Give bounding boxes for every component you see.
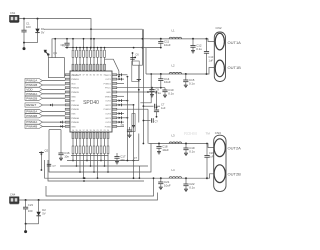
junction (160, 38, 162, 40)
pin bottom 3 (79, 133, 81, 139)
svg-text:C6: C6 (135, 52, 139, 56)
zener D2 (38, 200, 40, 212)
capacitor C9 to ground (151, 88, 153, 90)
wire Q2 stem (40, 160, 42, 170)
wire right pin 8 (117, 104, 134, 106)
resistor R8 (top network) (97, 48, 99, 51)
resistor R12 (bottom network) (72, 139, 74, 146)
inductor L2 (169, 72, 181, 74)
junction on rail (23, 42, 25, 44)
wire lower rail 1 (48, 160, 144, 181)
pin right 6 (112, 95, 117, 97)
capacitor C10 to ground (164, 88, 166, 90)
resistor R14 (bottom network) (79, 139, 81, 146)
resistor R21 (bottom network) (104, 139, 106, 146)
junction (83, 180, 85, 182)
svg-text:100: 100 (28, 209, 33, 213)
net flag RESET (25, 103, 43, 107)
pin right 7 (112, 100, 117, 102)
wire loop upper-left of IC (48, 58, 64, 78)
diode arrow channel (138, 80, 140, 82)
wire OUT2A row (149, 144, 214, 148)
svg-text:GND: GND (71, 126, 76, 128)
pin bottom 5 (86, 133, 88, 139)
wire resistor top rail (65, 47, 161, 49)
capacitor C7 series (143, 105, 153, 107)
junction (138, 89, 140, 91)
pin left 10 (65, 113, 70, 115)
pin top 8 (97, 64, 99, 70)
net flag VDD (25, 87, 43, 91)
svg-text:OUT2B: OUT2B (228, 172, 242, 177)
pin right 3 (112, 82, 117, 84)
junction (185, 177, 187, 179)
net flag PWM1A (25, 79, 43, 83)
svg-text:RESET: RESET (26, 103, 36, 107)
wire resistor 14 drop (79, 154, 81, 172)
pin left 7 (65, 100, 70, 102)
resistor R22 (bottom network) (107, 139, 109, 146)
svg-text:14: 14 (72, 130, 74, 132)
junction (84, 177, 86, 179)
diode arrow pin10 (119, 112, 121, 114)
svg-text:L2: L2 (172, 64, 176, 68)
pin right 2 (112, 78, 117, 80)
capacitor C2 between rails (66, 39, 68, 43)
junction (127, 76, 129, 78)
wire VDD rail to resistor header (90, 29, 92, 47)
transistor Q2 (40, 152, 42, 154)
wire CN4 bus (19, 193, 158, 201)
wire right pin 9 (OUT row) (117, 108, 148, 110)
svg-text:0.1u: 0.1u (189, 185, 195, 189)
junction (160, 177, 162, 179)
svg-text:OUT1B: OUT1B (228, 65, 242, 70)
svg-text:1uF: 1uF (209, 154, 214, 158)
wire resistor 12 drop (72, 154, 74, 161)
svg-text:PWM2A: PWM2A (26, 92, 37, 96)
svg-text:PWM2B: PWM2B (71, 92, 79, 94)
svg-text:L3: L3 (172, 134, 176, 138)
pin left 12 (65, 121, 70, 123)
svg-text:1uF: 1uF (209, 58, 214, 62)
pin bottom 4 (83, 133, 85, 139)
svg-text:PWM3B: PWM3B (71, 109, 79, 111)
svg-text:16: 16 (79, 130, 81, 132)
svg-text:OUT3: OUT3 (105, 114, 111, 116)
inductor L4 (169, 177, 181, 179)
diode arrow pin11 (119, 117, 121, 119)
resistor R11 (channel) (132, 114, 135, 132)
junction (206, 143, 208, 145)
inductor L1 (169, 37, 181, 39)
resistor R7 (top network) (93, 48, 95, 51)
svg-text:PWM4B: PWM4B (26, 125, 37, 129)
svg-text:0.1u: 0.1u (189, 81, 195, 85)
junction (192, 38, 194, 40)
svg-text:PGND: PGND (105, 126, 112, 128)
junction (185, 73, 187, 75)
zener D1 (37, 19, 39, 29)
svg-text:5V: 5V (41, 30, 45, 34)
transistor Q1 (44, 50, 46, 52)
resistor R16 (bottom network) (86, 139, 88, 146)
pin top 5 (86, 64, 88, 70)
svg-text:10uF: 10uF (162, 148, 169, 152)
svg-text:PWM3A: PWM3A (26, 110, 37, 114)
svg-text:PWM2B: PWM2B (26, 96, 37, 100)
wire right pin 11 (117, 117, 128, 119)
polarity mark row10 (60, 125, 62, 127)
svg-text:15: 15 (75, 130, 77, 132)
junction (118, 76, 120, 78)
net flag PWM1B (25, 83, 43, 87)
junction (158, 143, 160, 145)
svg-text:BST1: BST1 (106, 75, 112, 77)
junction node D (38, 199, 40, 201)
wire right pin 3 (117, 82, 124, 84)
svg-text:C23: C23 (28, 203, 34, 207)
wire bridge lower-left (49, 129, 61, 131)
wire rail to OUT1B (145, 48, 147, 74)
wire VDD bus (44, 28, 142, 30)
capacitor C8 (channel) (156, 92, 158, 108)
svg-text:100: 100 (26, 25, 31, 29)
resistor R4 (top network) (83, 48, 85, 51)
wire resistor 19 drop (97, 154, 99, 179)
svg-text:R1-10: R1-10 (62, 44, 70, 48)
svg-text:Q1: Q1 (53, 51, 57, 55)
wire channel v1 (126, 77, 128, 161)
svg-text:VREG: VREG (105, 96, 111, 98)
diode arrow pin8 (119, 104, 121, 106)
pin top 7 (93, 64, 95, 70)
pin right 5 (112, 91, 117, 93)
pin left 4 (65, 87, 70, 89)
junction (160, 73, 162, 75)
wire right pin 1 (117, 74, 128, 76)
wire resistor 18 drop (93, 154, 95, 172)
wire resistor 22 drop (107, 154, 109, 172)
pin right 12 (112, 121, 117, 123)
svg-text:CN3: CN3 (215, 131, 221, 135)
resistor R18 (bottom network) (93, 139, 95, 146)
svg-text:CN1: CN1 (10, 11, 16, 15)
junction node B (37, 18, 39, 20)
net flag PWM4B (25, 124, 43, 128)
wire OUT1B row (146, 68, 214, 75)
net flag PWM3B (25, 114, 43, 118)
wire bottom rail 2 (26, 223, 39, 225)
wire channel v4 (boot) (142, 29, 144, 143)
svg-text:PWM2A: PWM2A (71, 87, 79, 90)
svg-text:38: 38 (79, 75, 81, 77)
wire right pin 10 (117, 113, 124, 115)
capacitor C19 (185, 144, 187, 149)
diode arrow pin12 (119, 121, 121, 123)
svg-text:ROHM: ROHM (184, 131, 197, 136)
wire right pin 13 (117, 125, 124, 127)
wire rail stub up 2 (93, 39, 95, 48)
wire drop to Q1 loop (54, 39, 56, 58)
wire PVCC rail upper (52, 39, 208, 58)
pin bottom 9 (100, 133, 102, 139)
capacitor C22 (185, 178, 187, 184)
svg-text:PWM1B: PWM1B (26, 83, 37, 87)
svg-text:35: 35 (89, 75, 91, 77)
bridge cap C13 (206, 39, 208, 52)
pin right 11 (112, 117, 117, 119)
svg-text:19: 19 (89, 130, 91, 132)
IC U1 body (70, 71, 112, 132)
resistor R3 (top network) (79, 48, 81, 51)
svg-text:PWM1B: PWM1B (71, 79, 79, 81)
ground (bottom-left) (25, 224, 27, 231)
pin left 5 (65, 91, 70, 93)
wire right pin 7 (117, 100, 128, 102)
svg-text:0.1u: 0.1u (189, 149, 195, 153)
pin right 8 (112, 104, 117, 106)
svg-text:PWM3B: PWM3B (26, 114, 37, 118)
pin bottom 10 (104, 133, 106, 139)
svg-text:0.1u: 0.1u (168, 91, 174, 95)
wire right pin 6 (117, 95, 124, 97)
svg-text:23: 23 (103, 130, 105, 132)
pin top 6 (90, 64, 92, 70)
wire bus 1 (67, 160, 139, 162)
pin top 10 (104, 64, 106, 70)
resistor R5 (top network) (86, 48, 88, 51)
pin top 2 (76, 64, 78, 70)
wire rail stub up (72, 39, 74, 48)
wire right pin 5 (rail) (117, 91, 148, 93)
junction (142, 47, 144, 49)
svg-text:17: 17 (82, 130, 84, 132)
wire bus drop right (133, 29, 143, 65)
polarity mark row9 (60, 121, 62, 123)
pin left 13 (65, 125, 70, 127)
capacitor C7b series (143, 120, 150, 122)
junction (185, 143, 187, 145)
pin right 13 (112, 125, 117, 127)
svg-text:PGND1: PGND1 (104, 83, 112, 85)
capacitor C17 right of IC (116, 153, 118, 157)
svg-text:5V: 5V (42, 212, 46, 216)
capacitor C15 (185, 74, 187, 80)
pin right 10 (112, 113, 117, 115)
svg-text:18: 18 (86, 130, 88, 132)
capacitor C12 (192, 39, 194, 46)
wire resistor 13 drop (76, 154, 78, 166)
pin top 3 (79, 64, 81, 70)
svg-text:GND: GND (71, 96, 76, 98)
wire OUT2B row jog (207, 174, 214, 178)
svg-text:GND: GND (106, 92, 111, 94)
svg-text:PWM3A: PWM3A (71, 104, 79, 107)
svg-text:TM: TM (206, 132, 211, 136)
svg-text:34: 34 (93, 75, 95, 77)
svg-text:0.1u: 0.1u (155, 91, 161, 95)
capacitor C1 (23, 19, 25, 31)
junction (160, 87, 162, 89)
resistor R10 (top network) (104, 48, 106, 51)
bootstrap cap box (132, 61, 139, 82)
wire channel v3 (138, 65, 140, 122)
pin bottom 1 (72, 133, 74, 139)
ground (top-left) (23, 43, 25, 48)
svg-text:OUT2A: OUT2A (228, 146, 242, 151)
pin left 8 (65, 104, 70, 106)
resistor R9 (top network) (100, 48, 102, 51)
junction (142, 38, 144, 40)
wire resistor 21 drop (104, 154, 106, 166)
wire bus2 drop (138, 166, 140, 178)
svg-text:PWM4B: PWM4B (71, 122, 79, 124)
wire resistor 20 drop (100, 154, 102, 161)
pin bottom 7 (93, 133, 95, 139)
svg-text:C13: C13 (209, 55, 214, 59)
svg-text:CN2: CN2 (216, 26, 222, 30)
net flag PWM2A (25, 92, 43, 96)
svg-text:VDD: VDD (71, 83, 76, 85)
svg-text:32: 32 (100, 75, 102, 77)
pin left 11 (65, 117, 70, 119)
cap mark on riser (47, 163, 51, 165)
svg-text:PWM4A: PWM4A (71, 117, 79, 120)
capacitor C21 (160, 178, 162, 182)
svg-text:OUT4: OUT4 (105, 122, 111, 124)
svg-text:PGND2: PGND2 (104, 109, 112, 111)
resistor R13 (bottom network) (76, 139, 78, 146)
pin bottom 11 (107, 133, 109, 139)
wire resistor 17 drop (90, 154, 92, 166)
wire OUT1A row (150, 39, 214, 42)
resistor R6 (top network) (90, 48, 92, 51)
resistor R15 (bottom network) (83, 139, 85, 146)
wire drop x133.5 (133, 105, 135, 178)
svg-text:L1: L1 (172, 29, 176, 33)
pin bottom 6 (90, 133, 92, 139)
resistor R20 (bottom network) (100, 139, 102, 146)
svg-text:L4: L4 (172, 168, 176, 172)
wire right pin 12 (117, 121, 124, 123)
pin left 9 (65, 108, 70, 110)
pin right 4 (112, 87, 117, 89)
wire channel v2 (132, 53, 134, 65)
junction (206, 38, 208, 40)
pin top 1 (72, 64, 74, 70)
svg-text:SPD40: SPD40 (83, 100, 99, 106)
bridge cap C20 (206, 144, 208, 156)
capacitor C5 (channel) (129, 127, 131, 130)
svg-text:OUT1: OUT1 (105, 79, 111, 81)
diode arrow pin2 (119, 78, 121, 80)
net flag PWM4A (25, 120, 43, 124)
wire right pin 2 (117, 78, 124, 80)
resistor R2 (top network) (76, 48, 78, 51)
resistor R1 (top network) (72, 48, 74, 51)
wire rail stub up 3 (83, 39, 85, 48)
svg-text:PWM1A: PWM1A (71, 74, 79, 77)
svg-text:10uF: 10uF (164, 183, 171, 187)
svg-text:OUT2: OUT2 (105, 101, 111, 103)
svg-text:10uF: 10uF (164, 80, 171, 84)
svg-text:RST: RST (71, 101, 76, 103)
junction (25, 223, 27, 225)
svg-text:0.1u: 0.1u (196, 47, 202, 51)
svg-text:VSS: VSS (71, 114, 76, 116)
resistor R19 (bottom network) (97, 139, 99, 146)
connector CN1 (power input top-left) (10, 15, 20, 21)
svg-text:37: 37 (82, 75, 84, 77)
connector CN3 OUT2 (214, 135, 226, 191)
capacitor C18 (158, 144, 160, 147)
wire bottom network rail (71, 154, 109, 156)
wire bus 2 (60, 165, 148, 167)
svg-text:1uF: 1uF (161, 106, 166, 110)
pin top 4 (83, 64, 85, 70)
net flag PWM2B (25, 96, 43, 100)
pin left 6 (65, 95, 70, 97)
resistor R17 (bottom network) (90, 139, 92, 146)
connector CN4 (bottom-left) (10, 197, 20, 203)
inductor L3 (169, 142, 181, 144)
pin top 9 (100, 64, 102, 70)
pin bottom 2 (76, 133, 78, 139)
svg-text:CN4: CN4 (10, 193, 16, 197)
capacitor C11 (160, 39, 162, 42)
capacitor C14 (160, 74, 162, 79)
diode arrow pin7 (119, 99, 121, 101)
pin bottom 8 (97, 133, 99, 139)
svg-text:21: 21 (96, 130, 98, 132)
wire bus 4 (45, 160, 208, 178)
wire resistor 15 drop (83, 154, 85, 179)
junction (90, 47, 92, 49)
junction node C (25, 199, 27, 201)
svg-text:BST2: BST2 (106, 105, 112, 107)
svg-text:OUT1A: OUT1A (228, 40, 242, 45)
pin right 1 (112, 74, 117, 76)
capacitor C6 bars (130, 57, 134, 59)
wire row2 from below (140, 74, 151, 103)
net flag PWM3A (25, 109, 43, 113)
wire diagonal top-right of IC (105, 59, 119, 76)
svg-text:PVCC: PVCC (105, 88, 111, 90)
connector CN2 OUT1 (214, 32, 225, 82)
wire bus 3 (49, 130, 151, 172)
pin left 3 (65, 82, 70, 84)
wire right pin 4 (rail PVCC2) (117, 87, 165, 89)
capacitor C23 (25, 200, 27, 207)
wire riser to OUT2A (147, 109, 149, 143)
pin left 2 (65, 78, 70, 80)
junction (143, 105, 145, 107)
pin left 1 (65, 74, 70, 76)
wire lower rail 2 (46, 178, 154, 196)
svg-text:10n: 10n (120, 158, 125, 162)
svg-text:C5: C5 (121, 123, 125, 127)
svg-text:24: 24 (107, 130, 109, 132)
wire resistor 16 drop (86, 154, 88, 161)
svg-text:10n: 10n (64, 154, 69, 158)
polarity mark on RESET wire (50, 104, 52, 106)
svg-text:PWM1A: PWM1A (26, 79, 37, 83)
pin right 9 (112, 108, 117, 110)
svg-text:33: 33 (96, 75, 98, 77)
svg-text:10uF: 10uF (164, 43, 171, 47)
svg-text:36: 36 (86, 75, 88, 77)
